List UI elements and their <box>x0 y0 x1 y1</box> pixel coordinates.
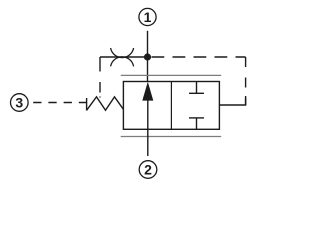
orifice (restriction) <box>111 48 134 66</box>
infinite positioning line bottom <box>121 136 222 138</box>
pilot line (dashed) right corner down <box>245 57 247 105</box>
wire junction to orifice corner <box>100 56 148 58</box>
envelope divider <box>170 82 172 130</box>
blocked port bottom T stem <box>196 118 198 129</box>
flow path stem <box>147 99 149 156</box>
pilot connector to valve right side <box>219 96 245 105</box>
blocked port top T bar <box>189 92 204 94</box>
pilot line (dashed) corner down to spring <box>99 57 101 98</box>
infinite positioning line top <box>121 74 222 76</box>
svg-text:1: 1 <box>144 9 152 25</box>
spring seat bar <box>86 98 88 111</box>
svg-text:2: 2 <box>144 162 152 178</box>
blocked port top T stem <box>196 82 198 94</box>
pilot line (dashed) port 3 to spring seat <box>33 102 86 104</box>
spring <box>87 97 124 111</box>
port circle 1 <box>139 8 156 25</box>
wire from port 1 to valve top <box>147 31 149 82</box>
port circle 3 <box>10 94 28 112</box>
flow arrow head <box>142 82 153 101</box>
valve envelope <box>123 82 219 130</box>
port circle 2 <box>139 161 157 179</box>
pilot line (dashed) junction to right corner <box>152 56 246 58</box>
junction node <box>144 53 151 60</box>
blocked port bottom T bar <box>189 117 204 119</box>
svg-text:3: 3 <box>15 95 23 111</box>
